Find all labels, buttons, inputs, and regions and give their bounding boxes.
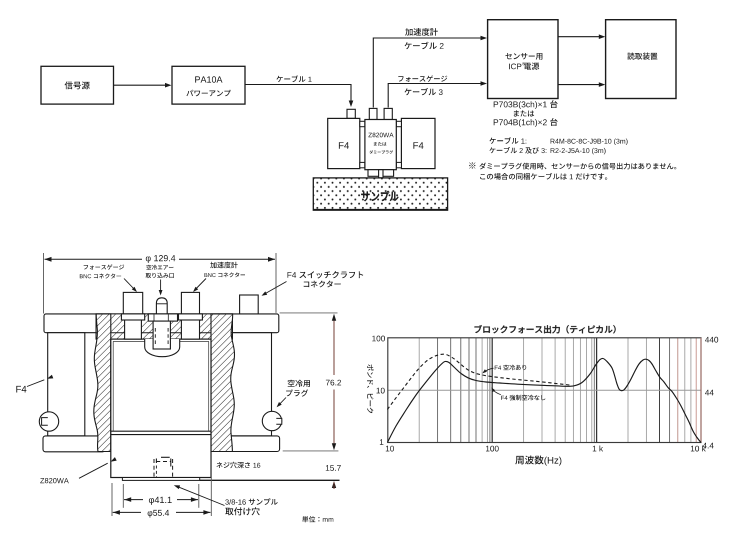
box ICP sensor power supply (488, 20, 558, 99)
wire signal to amp (114, 83, 172, 88)
label cable part numbers (489, 137, 627, 154)
box signal source 信号源 (41, 66, 114, 104)
curve F4 with air cooling (dashed) (387, 354, 572, 409)
shaker F4 right box (401, 118, 435, 168)
dimension line dia 129.4 (45, 257, 276, 262)
note dummy plug (469, 162, 676, 180)
air passage U loop (145, 339, 180, 357)
impedance head Z820WA side tabs (360, 121, 402, 167)
label unit mm (302, 516, 333, 522)
label F4 switchcraft connector (262, 271, 364, 296)
hatched section top band (96, 314, 233, 339)
chart frame (388, 338, 701, 443)
mounting hole dashed outline (154, 457, 173, 477)
label accelerometer cable 2 (405, 28, 444, 49)
y axis labels left (372, 336, 385, 445)
label force gauge cable 3 (398, 75, 447, 95)
reference line top of plate (280, 312, 338, 314)
BNC connector force gauge (121, 292, 144, 339)
Z820WA bore and lower block (111, 339, 211, 477)
Z820WA foot and stud (368, 170, 394, 178)
box amplifier PA10A (172, 66, 245, 104)
sample block サンプル (313, 178, 447, 210)
impedance head Z820WA body (365, 120, 396, 170)
shaker F4 left box (328, 118, 360, 168)
x axis labels (386, 446, 706, 452)
plate bottom edge through section (96, 332, 233, 334)
x axis title frequency Hz (515, 456, 561, 466)
label F4 with leader (16, 375, 53, 393)
label cable 1 (276, 75, 311, 82)
air inlet nozzle (148, 298, 177, 321)
wire cable 1 (245, 85, 353, 108)
connector stud on left F4 (347, 109, 355, 118)
label dia 129.4 air inlet (146, 255, 176, 296)
hatched section left wavy band (94, 314, 111, 452)
dimension 76.2 (326, 314, 341, 450)
y axis label pounds peak (vertical) (367, 364, 374, 413)
legend F4 without forced cooling (491, 387, 545, 400)
F4 left cylinder (48, 333, 85, 436)
label screw hole depth ネジ穴深さ16 (217, 462, 261, 469)
BNC connector accelerometer (179, 292, 203, 339)
wire cable 3 (388, 81, 487, 107)
label accelerometer BNC connector (193, 262, 245, 292)
chart title (475, 325, 616, 333)
air inlet cylinder (153, 321, 170, 349)
F4 left bottom plate (43, 436, 105, 452)
wire cable 2 (373, 36, 487, 108)
F4 right bottom plate (208, 436, 280, 452)
Z820WA base strip (122, 478, 199, 481)
legend F4 with air cooling (482, 365, 526, 374)
label force gauge BNC connector (80, 264, 137, 292)
dimension dia 55.4 (112, 453, 211, 518)
reference line base bottom (200, 479, 340, 481)
dimension dia 41.1 (123, 484, 199, 508)
label air cooling plug 空冷用プラグ (277, 380, 310, 408)
label P703B / P704B options (494, 100, 558, 127)
chart gridlines (388, 338, 701, 443)
label 3/8-16 sample mounting hole (174, 485, 278, 515)
dimension 15.7 (326, 465, 341, 489)
y axis labels right newtons (703, 337, 719, 449)
dimension 129.4 extension lines (44, 253, 277, 314)
box readout device 読取装置 (606, 20, 676, 99)
label Z820WA with leader (40, 457, 117, 483)
hatched section right wavy band (211, 314, 234, 452)
curve F4 without forced cooling (solid) (387, 358, 701, 442)
F4 top mounting plate (44, 314, 279, 333)
air cooling plug right (262, 411, 282, 430)
switchcraft connector body (240, 295, 259, 314)
air cooling plug left (39, 412, 58, 431)
reference line bottom of F4 (283, 450, 339, 452)
wire ICP to readout top (558, 34, 605, 39)
wire ICP to readout bottom (558, 82, 605, 87)
F4 right cylinder (224, 333, 272, 436)
impedance head Z820WA studs (369, 108, 392, 119)
